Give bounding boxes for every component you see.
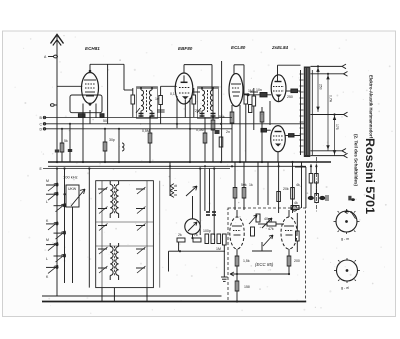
svg-text:ECL80: ECL80 xyxy=(231,45,246,50)
svg-text:5k: 5k xyxy=(64,139,68,143)
svg-text:100 kHz: 100 kHz xyxy=(63,175,78,180)
svg-text:175: 175 xyxy=(335,124,339,130)
svg-text:250: 250 xyxy=(319,84,323,90)
svg-text:g - m: g - m xyxy=(341,237,349,241)
svg-text:1,5k: 1,5k xyxy=(243,259,250,263)
svg-text:7k: 7k xyxy=(194,233,198,237)
svg-text:1M: 1M xyxy=(216,247,221,251)
svg-text:1k: 1k xyxy=(249,183,253,187)
svg-text:M: M xyxy=(46,238,49,242)
svg-text:47k: 47k xyxy=(268,227,274,231)
svg-text:(2. Teil des Schaltbildes): (2. Teil des Schaltbildes) xyxy=(353,134,359,186)
svg-text:0,1: 0,1 xyxy=(170,92,175,96)
svg-text:0,5M: 0,5M xyxy=(142,129,150,133)
svg-text:4k: 4k xyxy=(294,201,298,205)
svg-text:L: L xyxy=(46,257,48,261)
svg-text:2xEL84: 2xEL84 xyxy=(271,45,289,50)
svg-text:1n: 1n xyxy=(155,97,159,101)
svg-text:0,3M: 0,3M xyxy=(196,128,204,132)
svg-text:10n: 10n xyxy=(256,88,262,92)
svg-text:g - el: g - el xyxy=(341,286,349,290)
svg-text:50k: 50k xyxy=(219,115,225,119)
svg-text:1M: 1M xyxy=(248,89,253,93)
svg-text:ECH81: ECH81 xyxy=(85,46,100,51)
svg-text:2k: 2k xyxy=(178,233,182,237)
svg-text:100p: 100p xyxy=(203,229,211,233)
svg-text:50: 50 xyxy=(103,119,107,123)
svg-text:4k: 4k xyxy=(296,183,300,187)
svg-text:25p: 25p xyxy=(195,109,201,113)
svg-text:(ECC 85): (ECC 85) xyxy=(255,262,274,267)
svg-text:0,7A: 0,7A xyxy=(329,95,333,103)
svg-text:150: 150 xyxy=(244,285,250,289)
svg-text:EBF80: EBF80 xyxy=(178,46,193,51)
svg-text:Elektro-Akustik Hartmannsdorf: Elektro-Akustik Hartmannsdorf xyxy=(369,75,374,138)
svg-text:UKW: UKW xyxy=(68,187,77,191)
svg-text:L: L xyxy=(46,200,48,204)
svg-text:30p: 30p xyxy=(109,138,115,142)
svg-text:250: 250 xyxy=(287,95,293,99)
svg-text:2n: 2n xyxy=(226,130,230,134)
svg-text:M: M xyxy=(46,179,49,183)
svg-text:Rossini 5701: Rossini 5701 xyxy=(363,138,377,214)
svg-text:50k: 50k xyxy=(241,183,247,187)
svg-text:200: 200 xyxy=(294,259,300,263)
svg-text:40p: 40p xyxy=(264,217,270,221)
svg-text:20k: 20k xyxy=(283,187,289,191)
